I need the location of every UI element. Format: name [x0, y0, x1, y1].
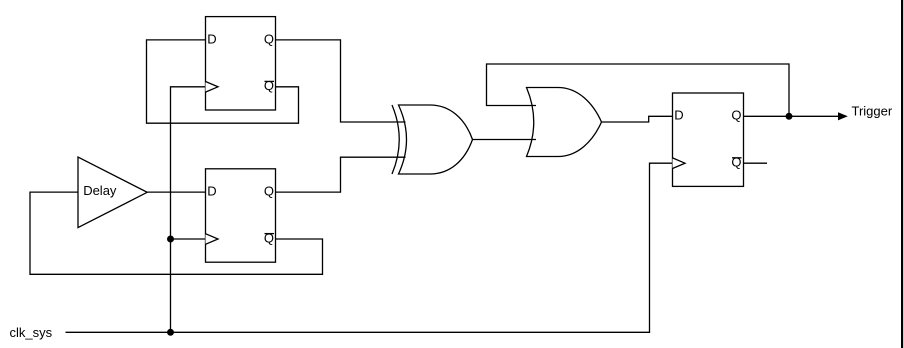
wire Delay output to FF2 D: [147, 191, 206, 193]
junction dot FF3 Q output: [786, 113, 793, 120]
flip-flop U3 (output D flip-flop): [673, 93, 744, 186]
svg-text:Q: Q: [264, 184, 274, 199]
wire FF3 Q feedback to OR top input: [487, 64, 790, 116]
svg-text:Q: Q: [264, 78, 274, 93]
arrowhead Trigger: [838, 112, 848, 120]
svg-text:D: D: [674, 108, 683, 123]
wire Q-bar1 to D1 feedback: [147, 40, 299, 123]
buffer Delay: [78, 157, 147, 228]
svg-text:Q: Q: [264, 230, 274, 245]
OR gate: [527, 88, 602, 157]
wire XOR output to OR bottom input: [473, 139, 537, 141]
wire Q-bar2 to Delay input feedback: [30, 192, 323, 274]
wire FF1 Q to XOR top input: [276, 40, 406, 122]
svg-text:D: D: [207, 184, 216, 199]
svg-text:Q: Q: [731, 108, 741, 123]
flip-flop U2 (middle D flip-flop): [206, 169, 276, 262]
wire FF2 Q to XOR bottom input: [276, 157, 406, 192]
flip-flop U1 (top D flip-flop): [206, 17, 276, 110]
junction dot clk at FF2 clock branch: [167, 236, 174, 243]
svg-text:Q: Q: [264, 31, 274, 46]
wire OR output to FF3 D: [602, 116, 673, 122]
wire clk_sys to FF3 clock: [66, 163, 673, 332]
wire FF1 clock to clk vertical: [171, 87, 206, 332]
svg-text:Q: Q: [731, 155, 741, 170]
svg-text:Delay: Delay: [83, 183, 117, 198]
junction dot clk_sys: [167, 329, 174, 336]
svg-text:D: D: [207, 31, 216, 46]
wire FF3 Q to Trigger output: [744, 115, 841, 117]
stub Q-bar3: [744, 162, 768, 164]
svg-text:clk_sys: clk_sys: [10, 325, 53, 340]
XOR gate: [392, 105, 473, 174]
wire clk branch to FF2 clock: [171, 238, 206, 240]
svg-text:Trigger: Trigger: [852, 104, 893, 119]
